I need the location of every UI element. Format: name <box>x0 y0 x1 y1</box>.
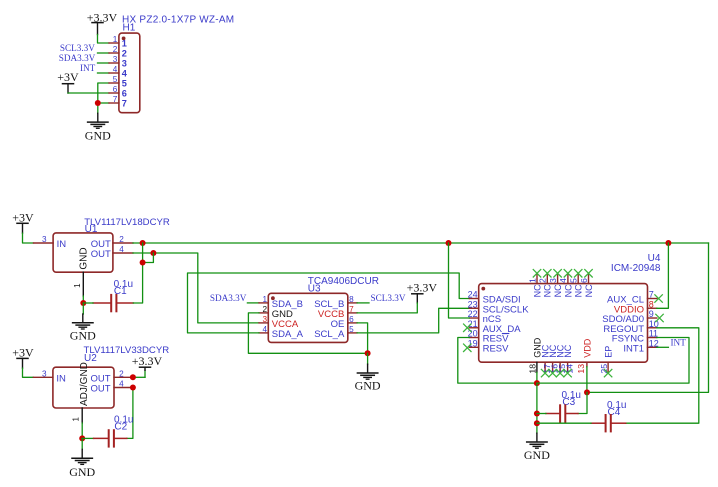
power +3.3V (U3 VCCB) <box>407 280 438 303</box>
pin 20 stub (RESV) of U4 <box>469 337 478 339</box>
pin 2 stub (NC) of U4 top <box>546 274 548 284</box>
capacitor C3 0.1u <box>546 390 581 422</box>
wire U3 pin8 SCL_B <box>357 302 369 304</box>
svg-text:1: 1 <box>113 35 118 44</box>
wire U3 SDA_A to U4 SDA/SDI <box>188 273 470 333</box>
wire U1 pin2 OUT / 1.8V rail <box>133 242 709 244</box>
pin 22 stub (nCS) of U4 <box>469 317 478 319</box>
node junction U2 pin4 <box>130 385 136 391</box>
svg-text:2: 2 <box>113 45 118 54</box>
svg-text:4: 4 <box>113 65 118 74</box>
svg-text:4: 4 <box>262 325 267 334</box>
power +3V (U2 input) <box>12 346 34 369</box>
svg-text:GND: GND <box>70 328 96 342</box>
svg-text:GND: GND <box>85 128 111 142</box>
wire U1 GND junction to C1 left <box>83 302 93 304</box>
svg-text:GND: GND <box>69 465 95 479</box>
node junction U2 GND / C2 <box>79 435 85 441</box>
pin 6 stub (OE) of U3 <box>348 322 357 324</box>
pin 15 stub (NC) of U4 bottom <box>559 362 561 372</box>
no-connect X pin 9 SDO/AD0 <box>655 314 663 322</box>
pin 14 stub (NC) of U4 bottom <box>567 362 569 372</box>
svg-text:3: 3 <box>42 235 47 244</box>
overline of RESV pin20 <box>502 333 508 335</box>
pin 19 stub (RESV) of U4 <box>469 346 478 348</box>
svg-text:7: 7 <box>113 95 118 104</box>
level shifter U3 TCA9406DCUR <box>259 276 379 342</box>
svg-text:EP: EP <box>604 346 614 358</box>
pin 2 stub (GND) of U3 <box>259 312 268 314</box>
wire SDA3.3V to U3 pin1 <box>247 302 259 304</box>
svg-text:6: 6 <box>579 278 589 283</box>
svg-text:SDA3.3V: SDA3.3V <box>210 293 247 303</box>
svg-text:3: 3 <box>262 315 267 324</box>
wire rail to U4 pin8 VDDIO <box>657 243 669 308</box>
wire U4 pin20 RESV to ground <box>458 338 537 384</box>
pin 25 stub (EP) of U4 bottom <box>607 362 609 372</box>
no-connect X pin 21 AUX_DA <box>463 324 471 332</box>
pin 1 stub (ADJ/GND) of U2 <box>81 408 83 423</box>
svg-text:OUT: OUT <box>91 384 111 395</box>
pin 6 stub of H1 <box>109 92 119 94</box>
connector H1 HX PZ2.0-1X7P WZ-AM <box>109 14 234 112</box>
capacitor C4 0.1u <box>591 400 626 432</box>
no-connect X pin 6 (U4 top) <box>584 269 592 277</box>
wire U4 pin10 REGOUT to C4 right <box>626 328 699 423</box>
node junction rail/C1 branch <box>140 240 146 246</box>
wire U2 pin2 to +3.3V <box>133 370 145 377</box>
svg-text:+3V: +3V <box>12 210 34 224</box>
svg-text:C4: C4 <box>608 407 621 418</box>
svg-text:2: 2 <box>119 369 124 378</box>
wire U3 pin5 SCL_A to U4 SCL/SCLK <box>357 308 469 333</box>
pin 3 stub (VCCA) of U3 <box>259 322 268 324</box>
wire rail branch down to jog <box>142 243 144 262</box>
svg-text:ADJ/GND: ADJ/GND <box>79 362 90 406</box>
wire VDD node down to C3 right <box>578 392 587 413</box>
svg-text:24: 24 <box>468 290 478 300</box>
ground GND (U4) <box>524 433 550 462</box>
wire ground rail down <box>536 383 538 433</box>
svg-text:3: 3 <box>113 55 118 64</box>
svg-text:2: 2 <box>122 48 127 58</box>
wire INT to H1 pin 4 <box>98 72 110 74</box>
no-connect X pin 25 (U4 bottom) <box>604 369 612 377</box>
node junction U4 GND/RESV/FSYNC <box>534 380 540 386</box>
wire +3V to H1 pin 6 <box>68 92 109 94</box>
svg-text:9: 9 <box>649 309 654 319</box>
regulator U2 TLV1117LV33DCYR <box>33 345 169 423</box>
wire +3V to U2 pin 3 IN <box>23 368 34 377</box>
ground GND (H1) <box>85 113 111 142</box>
pin 2 stub (OUT) of U2 <box>114 376 133 378</box>
pin 21 stub (AUX_DA) of U4 <box>469 327 478 329</box>
wire U2 pin4 down to C2 <box>127 388 133 439</box>
ground GND (U1) <box>70 303 96 342</box>
node junction rail to VDDIO <box>665 240 671 246</box>
wire H1 pin 5 to ground rail <box>98 83 109 103</box>
svg-text:C2: C2 <box>114 422 127 433</box>
wire U3 pin6 OE to ground junction <box>357 323 368 353</box>
wire H1 pin 7 to ground <box>98 103 109 113</box>
svg-text:SDA_A: SDA_A <box>272 329 304 340</box>
ground GND (U3) <box>355 353 381 392</box>
svg-text:7: 7 <box>122 98 127 108</box>
svg-text:SDA3.3V: SDA3.3V <box>59 53 96 63</box>
svg-text:3: 3 <box>122 58 127 68</box>
pin 8 stub (SCL_B) of U3 <box>348 302 357 304</box>
capacitor C1 0.1u <box>93 279 133 311</box>
wire jog pin4 to C1 branch <box>143 253 154 263</box>
pin 9 stub (SDO/AD0) of U4 <box>648 317 657 319</box>
svg-text:IN: IN <box>57 239 67 250</box>
wire U4 pin11 FSYNC to ground <box>537 338 689 384</box>
svg-text:21: 21 <box>468 319 478 329</box>
wire U4 pin18 GND down <box>536 372 538 383</box>
svg-text:6: 6 <box>122 88 127 98</box>
pin 7 stub of H1 <box>109 102 119 104</box>
wire U2 pin1 to ground <box>81 423 83 438</box>
no-connect X pin 19 RESV <box>463 344 471 352</box>
wire rail right edge down to VDD node <box>587 243 709 392</box>
svg-text:+3V: +3V <box>12 346 34 360</box>
wire rail down to U4 pin22 nCS <box>449 243 470 318</box>
node junction jog <box>140 260 146 266</box>
node junction U2 pin2 <box>130 374 136 380</box>
svg-text:ICM-20948: ICM-20948 <box>611 263 661 274</box>
svg-text:18: 18 <box>528 364 538 374</box>
pin 3 stub (IN) of U2 <box>33 376 53 378</box>
node junction U1 GND / C1 <box>80 300 86 306</box>
pin 17 stub (NC) of U4 bottom <box>544 362 546 372</box>
svg-text:1: 1 <box>73 283 82 288</box>
svg-text:RESV: RESV <box>483 344 510 355</box>
svg-text:H1: H1 <box>123 22 136 33</box>
svg-text:1: 1 <box>527 278 537 283</box>
no-connect X pin 3 (U4 top) <box>553 269 561 277</box>
pin 4 stub (OUT) of U1 <box>113 252 133 254</box>
pin 23 stub (SCL/SCLK) of U4 <box>469 307 478 309</box>
ground GND (U2) <box>69 438 95 479</box>
power +3.3V (top, H1 pin1) <box>87 10 118 34</box>
pin 3 stub (NC) of U4 top <box>557 274 559 284</box>
wire U4 pin13 VDD down <box>586 367 588 393</box>
svg-text:GND: GND <box>78 247 89 269</box>
pin 3 stub of H1 <box>109 62 119 64</box>
pin 11 stub (FSYNC) of U4 <box>648 337 657 339</box>
no-connect X pin 4 (U4 top) <box>564 269 572 277</box>
wire U2 GND junction to C2 left <box>82 437 93 439</box>
svg-text:+3V: +3V <box>57 70 79 84</box>
wire +3.3V to H1 pin 1 <box>98 35 110 44</box>
svg-text:NC: NC <box>563 344 573 357</box>
svg-text:INT1: INT1 <box>623 344 644 355</box>
svg-text:1: 1 <box>122 38 127 48</box>
wire C1 right up to 1.8V rail <box>133 263 142 304</box>
pin 4 stub (NC) of U4 top <box>567 274 569 284</box>
pin 1 stub (GND) of U1 <box>82 272 84 296</box>
pin 4 stub (OUT) of U2 <box>114 387 133 389</box>
capacitor C2 0.1u <box>94 415 134 447</box>
pin 7 stub (VCCB) of U3 <box>348 312 357 314</box>
no-connect X pin 7 AUX_CL <box>654 294 662 302</box>
no-connect X pin 1 (U4 top) <box>533 269 541 277</box>
regulator U1 TLV1117LV18DCYR <box>34 217 170 296</box>
svg-text:GND: GND <box>524 448 550 462</box>
wire +3.3V to U3 pin7 VCCB <box>357 303 417 313</box>
svg-text:6: 6 <box>113 85 118 94</box>
svg-text:NC: NC <box>574 284 584 297</box>
node junction GND/C3 <box>534 411 540 417</box>
wire GND junction to C3 left <box>537 413 546 415</box>
svg-text:23: 23 <box>468 299 478 309</box>
svg-text:1: 1 <box>72 417 81 422</box>
svg-text:NC: NC <box>584 284 594 297</box>
svg-text:5: 5 <box>122 78 127 88</box>
pin 16 stub (NC) of U4 bottom <box>552 362 554 372</box>
svg-text:8: 8 <box>649 299 654 309</box>
svg-text:4: 4 <box>119 245 124 254</box>
svg-text:VDD: VDD <box>582 338 592 358</box>
pin 13 stub (VDD) of U4 bottom <box>586 362 588 367</box>
no-connect X pin 2 (U4 top) <box>543 269 551 277</box>
wire U4 pin12 INT1 <box>657 346 669 348</box>
svg-text:4: 4 <box>119 380 124 389</box>
svg-text:INT: INT <box>80 63 96 73</box>
svg-text:NC: NC <box>563 284 573 297</box>
pin 1 stub (SDA_B) of U3 <box>259 302 268 304</box>
wire U1 pin1 to ground <box>82 296 84 303</box>
node junction GND/C4 <box>534 420 540 426</box>
net label SDA3.3V (U3 pin1) <box>210 293 247 303</box>
no-connect X pin 15 (U4 bottom) <box>556 369 564 377</box>
pin 1 stub (NC) of U4 top <box>536 274 538 284</box>
svg-text:8: 8 <box>349 295 354 304</box>
pin 5 stub of H1 <box>109 82 119 84</box>
no-connect X pin 17 (U4 bottom) <box>541 369 549 377</box>
node junction VDD/C3/rail <box>584 389 590 395</box>
svg-text:3: 3 <box>42 369 47 378</box>
net label SCL3.3V (U3 pin8) <box>371 293 406 303</box>
svg-text:SCL_A: SCL_A <box>314 329 345 340</box>
svg-text:HX PZ2.0-1X7P WZ-AM: HX PZ2.0-1X7P WZ-AM <box>122 14 234 25</box>
svg-text:5: 5 <box>569 278 579 283</box>
pin 4 stub of H1 <box>109 72 119 74</box>
svg-text:INT: INT <box>671 338 687 348</box>
node junction U1 pin4 <box>150 250 156 256</box>
wire U3 pin2 GND to ground junction <box>248 313 367 353</box>
pin 10 stub (REGOUT) of U4 <box>648 327 657 329</box>
pin 3 stub (IN) of U1 <box>34 242 54 244</box>
wire SDA3.3V to H1 pin 3 <box>98 62 110 64</box>
svg-text:3: 3 <box>548 278 558 283</box>
pin 4 stub (SDA_A) of U3 <box>259 332 268 334</box>
pin 12 stub (INT1) of U4 <box>648 346 657 348</box>
wire +3V to U1 pin 3 IN <box>23 233 34 243</box>
svg-text:5: 5 <box>113 75 118 84</box>
svg-text:IN: IN <box>56 374 66 385</box>
wire GND junction to C4 left <box>537 422 591 424</box>
no-connect X pin 5 (U4 top) <box>574 269 582 277</box>
svg-text:+3.3V: +3.3V <box>132 354 163 368</box>
net label SDA3.3V (H1 pin3) <box>59 53 96 63</box>
svg-text:2: 2 <box>262 305 267 314</box>
pin 2 stub of H1 <box>109 52 119 54</box>
no-connect X pin 16 (U4 bottom) <box>548 369 556 377</box>
pin 6 stub (NC) of U4 top <box>588 274 590 284</box>
svg-text:SCL3.3V: SCL3.3V <box>60 43 95 53</box>
svg-text:NC: NC <box>543 284 553 297</box>
svg-text:+3.3V: +3.3V <box>407 280 438 294</box>
svg-text:13: 13 <box>576 364 586 374</box>
pin 1 stub of H1 <box>109 42 119 44</box>
net label SCL3.3V (H1 pin2) <box>60 43 95 53</box>
pin 7 stub (AUX_CL) of U4 <box>648 298 657 300</box>
wire SCL3.3V to H1 pin 2 <box>98 52 110 54</box>
node junction rail to nCS <box>446 240 452 246</box>
node junction H1 pin7/pin5/GND <box>95 100 101 106</box>
svg-text:7: 7 <box>649 290 654 300</box>
svg-text:2: 2 <box>538 278 548 283</box>
power +3.3V (U2 output) <box>132 354 163 370</box>
svg-text:NC: NC <box>553 284 563 297</box>
pin 5 stub (SCL_A) of U3 <box>348 332 357 334</box>
pin 5 stub (NC) of U4 top <box>577 274 579 284</box>
pin 18 stub (GND) of U4 bottom <box>536 362 538 372</box>
svg-text:1: 1 <box>262 295 267 304</box>
svg-text:4: 4 <box>558 278 568 283</box>
power +3V (U1 input) <box>12 210 34 233</box>
power +3V (H1 pin6) <box>57 70 79 93</box>
net label INT (U4 INT1) <box>671 338 687 348</box>
svg-text:7: 7 <box>349 305 354 314</box>
pin 2 stub (OUT) of U1 <box>113 242 133 244</box>
svg-text:+3.3V: +3.3V <box>87 10 118 24</box>
net label INT (H1 pin4) <box>80 63 96 73</box>
imu U4 ICM-20948 <box>463 253 664 378</box>
no-connect X pin 14 (U4 bottom) <box>563 369 571 377</box>
node junction U3 GND/OE <box>365 350 371 356</box>
svg-text:6: 6 <box>349 315 354 324</box>
svg-text:NC: NC <box>532 284 542 297</box>
pin 8 stub (VDDIO) of U4 <box>648 307 657 309</box>
pin 24 stub (SDA/SDI) of U4 <box>469 298 478 300</box>
svg-text:GND: GND <box>355 378 381 392</box>
svg-text:4: 4 <box>122 68 128 78</box>
svg-text:SCL3.3V: SCL3.3V <box>371 293 406 303</box>
svg-text:5: 5 <box>349 325 354 334</box>
wire U1 pin4 OUT to U3 VCCA <box>133 253 259 323</box>
svg-text:OUT: OUT <box>91 249 111 260</box>
svg-text:2: 2 <box>119 235 124 244</box>
